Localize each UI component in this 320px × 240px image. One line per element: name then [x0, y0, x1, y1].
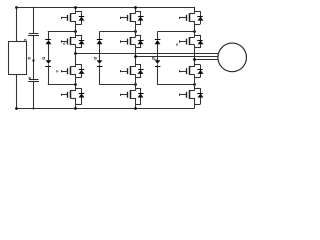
wire phase C output line — [194, 59, 219, 61]
diode SB3 triangle — [138, 70, 144, 74]
wire top DC+ rail — [17, 7, 195, 9]
diode SA3 triangle — [79, 70, 85, 74]
transistor SA4 channel bottom bend — [70, 98, 76, 100]
transistor SC2 channel bar — [189, 37, 191, 45]
wire cap column upper lead — [33, 7, 35, 34]
diode SC1 cathode bar — [197, 16, 202, 18]
label node C mid — [152, 57, 154, 59]
diode SB2 triangle — [138, 40, 144, 44]
transistor SA2 channel bar — [70, 37, 72, 45]
transistor SC1 channel bottom bend — [189, 21, 195, 23]
transistor SB2 gate bar — [127, 39, 129, 45]
diode SC4 triangle — [198, 94, 204, 98]
transistor SB3 gate terminal tick — [120, 70, 122, 72]
transistor SB1 channel bottom bend — [130, 21, 136, 23]
node leg B top rail junction — [134, 6, 137, 9]
transistor SC4 channel bottom bend — [189, 98, 195, 100]
transistor SC3 gate lead — [180, 71, 187, 73]
label S2A speck — [64, 43, 66, 45]
node clamp bottom junction leg B — [134, 83, 137, 86]
transistor SC4 channel top bend — [189, 90, 195, 92]
transistor SC3 gate terminal tick — [179, 70, 181, 72]
node capacitor midpoint — [32, 59, 34, 61]
diode DC1 triangle — [155, 40, 161, 44]
transistor SB4 channel bar — [130, 90, 132, 98]
transistor SB4 channel bottom bend — [130, 98, 136, 100]
wire clamp column C top bend — [157, 32, 159, 40]
transistor SB2 channel top bend — [130, 37, 136, 39]
transistor SC2 drain spur — [194, 35, 200, 37]
diode SA1 body-diode branch — [81, 11, 83, 24]
transistor SB3 drain spur — [135, 64, 141, 66]
diode DB2 cathode bar — [97, 66, 103, 68]
diode SC3 body-diode branch — [200, 65, 202, 78]
transistor SB1 gate lead — [121, 17, 128, 19]
diode DB1 cathode bar — [97, 39, 103, 41]
capacitor C1 plates — [29, 33, 39, 35]
node bottom rail cap junction — [33, 108, 35, 110]
diode SA3 cathode bar — [79, 69, 84, 71]
transistor SA1 gate terminal tick — [61, 17, 63, 19]
capacitor C2 plates — [29, 79, 39, 81]
label S2C speck — [176, 44, 178, 46]
transistor SC4 channel bar — [189, 90, 191, 98]
transistor SC3 drain spur — [194, 64, 200, 66]
transistor SB4 gate terminal tick — [120, 94, 122, 96]
transistor SC1 channel bar — [189, 13, 191, 21]
diode DC1 cathode bar — [155, 39, 161, 41]
wire source bottom lead — [16, 74, 18, 108]
diode SC4 cathode bar — [197, 93, 202, 95]
transistor SA2 gate lead — [61, 41, 68, 43]
diode SB2 cathode bar — [138, 40, 143, 42]
diode SA4 triangle — [79, 94, 85, 98]
wire bottom DC- rail — [17, 108, 195, 110]
label node C dash — [153, 59, 157, 61]
node leg B bottom rail junction — [134, 107, 137, 110]
diode DC2 triangle — [155, 60, 161, 64]
diode SA2 cathode bar — [79, 40, 84, 42]
transistor SA2 gate terminal tick — [61, 40, 63, 42]
diode SB3 cathode bar — [138, 69, 143, 71]
transistor SA2 drain spur — [76, 35, 82, 37]
transistor SC4 drain spur — [194, 88, 200, 90]
transistor SB4 channel top bend — [130, 90, 136, 92]
node top-left corner junction — [15, 6, 18, 9]
node phase C junction — [193, 58, 196, 61]
transistor SA1 channel top bend — [70, 13, 76, 15]
transistor SB3 gate bar — [127, 68, 129, 74]
transistor SA4 channel bar — [70, 90, 72, 98]
transistor SA4 gate bar — [67, 92, 69, 98]
node clamp top junction leg C — [193, 30, 196, 33]
transistor SC4 gate bar — [186, 92, 188, 98]
transistor SB2 channel bar — [130, 37, 132, 45]
transistor SC3 channel top bend — [189, 66, 195, 68]
transistor SC4 gate lead — [180, 94, 187, 96]
diode SA4 cathode bar — [79, 93, 84, 95]
node leg A top rail junction — [74, 6, 77, 9]
transistor SA4 channel top bend — [70, 90, 76, 92]
transistor SB3 channel bar — [130, 67, 132, 75]
transistor SA3 channel top bend — [70, 66, 76, 68]
transistor SB2 gate lead — [121, 41, 128, 43]
transistor SC2 gate terminal tick — [179, 40, 181, 42]
transistor SC4 gate terminal tick — [179, 94, 181, 96]
transistor SA3 channel bottom bend — [70, 74, 76, 76]
diode SA2 body-diode branch — [81, 35, 83, 48]
transistor SC1 gate lead — [180, 17, 187, 19]
transistor SA2 channel top bend — [70, 37, 76, 39]
node clamp bottom junction leg C — [193, 83, 196, 86]
node leg A bottom rail junction — [74, 107, 77, 110]
transistor SA1 gate bar — [67, 15, 69, 21]
diode SC2 cathode bar — [197, 40, 202, 42]
wire phase B output line — [135, 56, 219, 58]
diode SB2 body-diode branch — [140, 35, 142, 48]
wire clamp column C bottom bend — [157, 64, 159, 85]
transistor SC1 drain spur — [194, 11, 200, 13]
transistor SB3 gate lead — [121, 71, 128, 73]
diode SC1 body-diode branch — [200, 11, 202, 24]
wire cap middle lead — [33, 35, 35, 80]
diode DB2 triangle — [97, 60, 103, 64]
diode SB4 body-diode branch — [140, 88, 142, 104]
wire clamp column B bottom bend — [99, 64, 101, 85]
transistor SA4 gate lead — [61, 94, 68, 96]
transistor SC3 gate bar — [186, 68, 188, 74]
diode DA1 triangle — [46, 40, 52, 44]
transistor SA3 gate bar — [67, 68, 69, 74]
wire phase A output line — [76, 53, 220, 55]
transistor SC2 channel top bend — [189, 37, 195, 39]
diode SA4 body-diode branch — [81, 88, 83, 104]
transistor SB3 channel bottom bend — [130, 74, 136, 76]
transistor SC2 gate lead — [180, 41, 187, 43]
transistor SB2 drain spur — [135, 35, 141, 37]
transistor SA4 drain spur — [76, 88, 82, 90]
transistor SA1 gate lead — [61, 17, 68, 19]
transistor SA3 drain spur — [76, 64, 82, 66]
wire leg C vertical segments — [194, 7, 196, 14]
label S3A speck — [56, 71, 58, 73]
DC source V1 (rectangle) — [9, 42, 27, 75]
node phase A junction — [74, 52, 77, 55]
transistor SA2 channel bottom bend — [70, 44, 76, 46]
motor M (circle load) — [218, 43, 247, 72]
wire leg A vertical segments — [75, 7, 77, 14]
wire source top lead — [16, 7, 18, 42]
transistor SA1 channel bar — [70, 13, 72, 21]
diode SC1 triangle — [198, 17, 204, 21]
transistor SB1 gate terminal tick — [120, 17, 122, 19]
transistor SA4 gate terminal tick — [61, 94, 63, 96]
transistor SC1 gate bar — [186, 15, 188, 21]
transistor SB2 channel bottom bend — [130, 44, 136, 46]
transistor SC2 channel bottom bend — [189, 44, 195, 46]
wire leg B vertical segments — [135, 7, 137, 14]
diode SA1 triangle — [79, 17, 85, 21]
transistor SB1 drain spur — [135, 11, 141, 13]
transistor SA1 drain spur — [76, 11, 82, 13]
diode DA2 cathode bar — [45, 66, 51, 68]
transistor SA1 channel bottom bend — [70, 21, 76, 23]
wire clamp column B middle — [99, 44, 101, 61]
wire clamp column A bottom bend — [48, 64, 50, 85]
transistor SA2 gate bar — [67, 39, 69, 45]
transistor SB1 gate bar — [127, 15, 129, 21]
wire clamp column B top bend — [99, 32, 101, 40]
transistor SB3 channel top bend — [130, 66, 136, 68]
label C1 — [24, 39, 26, 41]
diode SC2 triangle — [198, 40, 204, 44]
node clamp bottom junction leg A — [74, 83, 77, 86]
diode SC2 body-diode branch — [200, 35, 202, 48]
transistor SB2 gate terminal tick — [120, 40, 122, 42]
diode DA1 cathode bar — [45, 39, 51, 41]
transistor SB1 channel bar — [130, 13, 132, 21]
diode SB1 triangle — [138, 17, 144, 21]
wire clamp column A middle — [48, 44, 50, 61]
transistor SB4 gate bar — [127, 92, 129, 98]
wire cap bottom lead — [33, 82, 35, 109]
transistor SC1 channel top bend — [189, 13, 195, 15]
label C2 — [29, 77, 31, 79]
transistor SB1 channel top bend — [130, 13, 136, 15]
diode SA3 body-diode branch — [81, 65, 83, 78]
transistor SC1 gate terminal tick — [179, 17, 181, 19]
diode SB1 body-diode branch — [140, 11, 142, 24]
transistor SA3 gate lead — [61, 71, 68, 73]
transistor SA3 gate terminal tick — [61, 70, 63, 72]
diode SB3 body-diode branch — [140, 65, 142, 78]
diode SB4 triangle — [138, 94, 144, 98]
transistor SB4 drain spur — [135, 88, 141, 90]
node clamp top junction leg B — [134, 30, 137, 33]
transistor SC2 gate bar — [186, 39, 188, 45]
transistor SC3 channel bar — [189, 67, 191, 75]
diode SC3 triangle — [198, 70, 204, 74]
diode DC2 cathode bar — [155, 66, 161, 68]
diode SB1 cathode bar — [138, 16, 143, 18]
diode SA2 triangle — [79, 40, 85, 44]
label midpoint o — [28, 57, 30, 59]
node bottom-left corner junction — [15, 107, 18, 110]
diode SC4 body-diode branch — [200, 88, 202, 104]
label node B mid — [94, 57, 96, 59]
wire clamp column C middle — [157, 44, 159, 61]
label node A mid — [43, 57, 45, 59]
diode SC3 cathode bar — [197, 69, 202, 71]
diode SA1 cathode bar — [79, 16, 84, 18]
diode DA2 triangle — [46, 60, 52, 64]
wire clamp column A top bend — [48, 32, 50, 40]
transistor SA3 channel bar — [70, 67, 72, 75]
node phase B junction — [134, 55, 137, 58]
transistor SC3 channel bottom bend — [189, 74, 195, 76]
diode SB4 cathode bar — [138, 93, 143, 95]
diode DB1 triangle — [97, 40, 103, 44]
transistor SB4 gate lead — [121, 94, 128, 96]
node clamp top junction leg A — [74, 30, 77, 33]
